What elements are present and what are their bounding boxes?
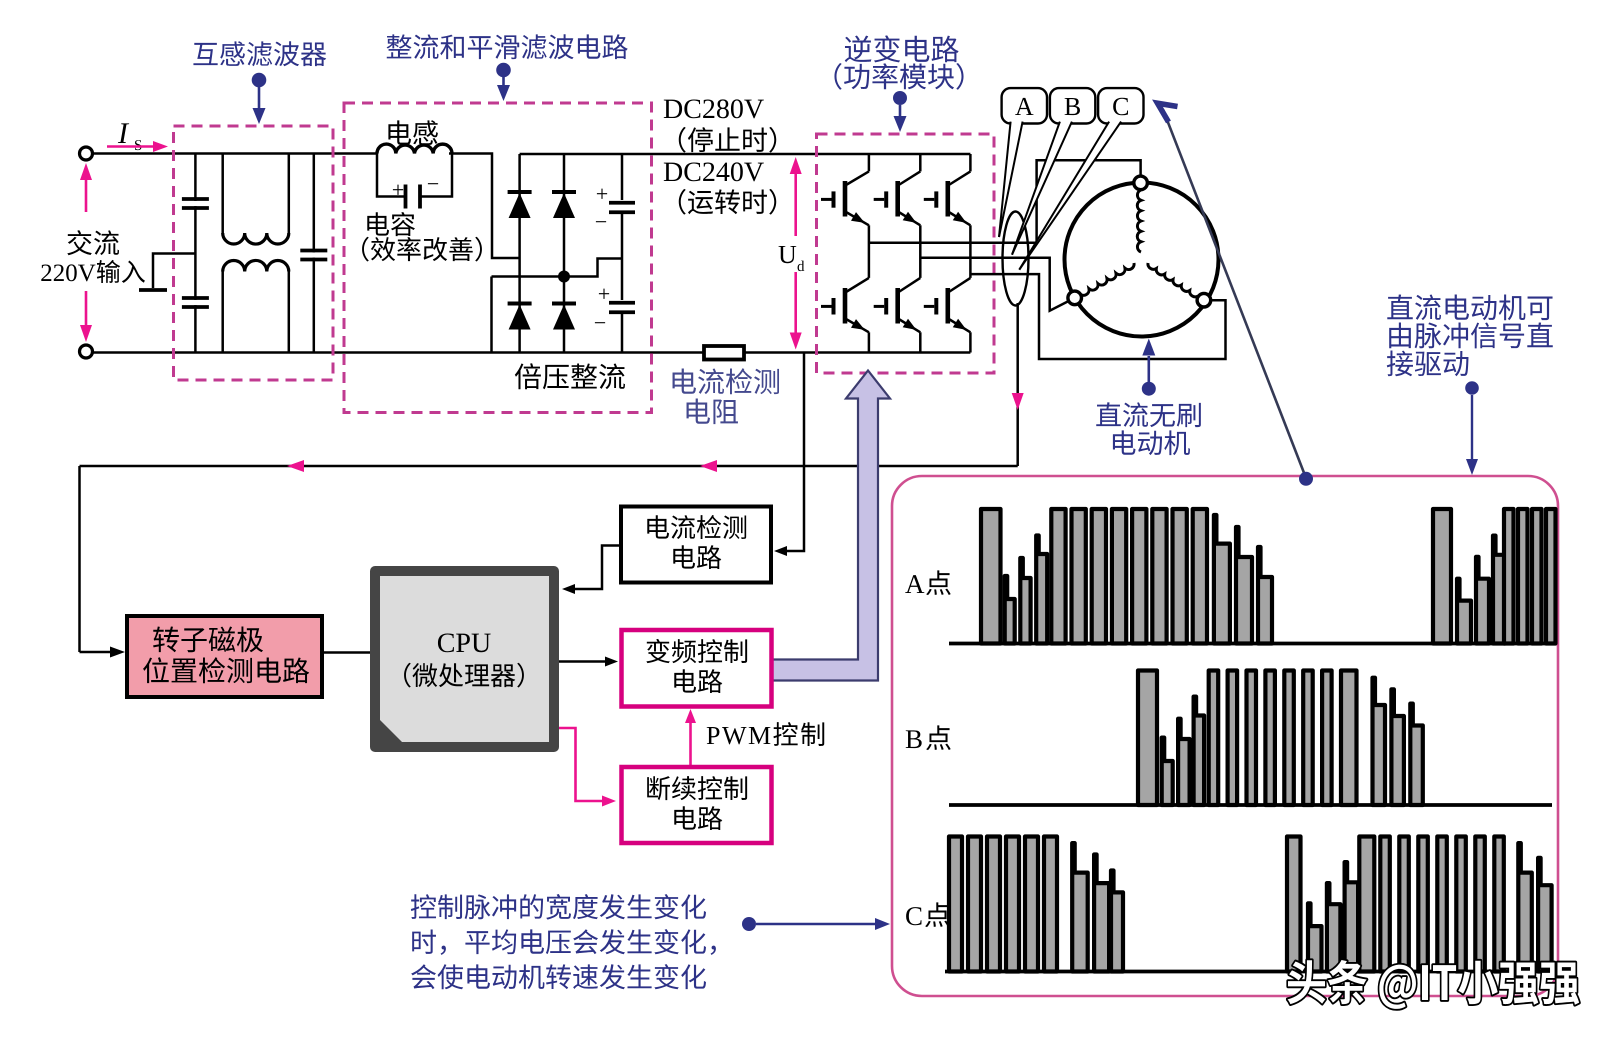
wire neutral drop to bottom <box>490 277 493 353</box>
node AC input bottom terminal <box>80 345 93 358</box>
arrow rectifier label pointer <box>502 77 505 86</box>
label control-pulse note <box>411 894 706 920</box>
arrow right note to waveform box <box>1471 395 1473 460</box>
arrow AC voltage up (magenta) <box>85 175 88 212</box>
pointer dot rectifier label <box>496 63 511 78</box>
callout wedge B <box>1012 122 1073 255</box>
wire Q2 collector drop <box>919 154 922 171</box>
arrow AC voltage down (magenta) <box>85 291 88 330</box>
capacitor C2 storage bottom <box>609 300 635 311</box>
label power module <box>834 63 963 90</box>
wire phase C output <box>970 274 1225 359</box>
wire rotor box to CPU <box>322 651 370 654</box>
label DC brushless motor <box>1096 402 1201 427</box>
label DC280V <box>664 99 764 118</box>
label plus bypass cap <box>393 185 403 195</box>
wire left diode column <box>518 154 521 353</box>
inductor choke lower winding <box>223 260 289 271</box>
diode D3 lower-left <box>508 302 532 306</box>
callout wedge C <box>1019 122 1122 270</box>
diode D2 upper-right <box>552 190 576 194</box>
box mutual-inductance filter (dashed) <box>174 126 334 380</box>
label (at stop) <box>679 127 776 153</box>
label minus bypass cap <box>428 183 438 184</box>
wire feedback horizontal <box>80 465 1018 468</box>
waveform B pulses <box>1138 671 1157 806</box>
transistor Q3 (upper IGBT phase C) <box>945 181 950 217</box>
node B label box <box>1050 88 1095 123</box>
wire filter left column <box>194 154 197 352</box>
box inverter power module (dashed) <box>817 134 995 373</box>
arrow inverter label pointer <box>899 105 902 117</box>
node AC input top terminal <box>80 147 93 160</box>
transistor Q5 (lower IGBT phase B) <box>895 288 900 324</box>
capacitor CX1 top <box>182 201 209 206</box>
box variable-frequency control <box>622 630 772 707</box>
wire sense to current-detect box <box>780 353 804 552</box>
label point B <box>906 730 922 748</box>
arrow feedback left 2 (magenta) <box>700 460 717 472</box>
diode D4 lower-right <box>552 302 576 306</box>
wire phase B midpoint vertical <box>919 225 922 278</box>
label (at run) <box>679 189 776 215</box>
arrow CPU to vf-control <box>559 660 611 663</box>
waveform A pulses <box>981 509 1001 644</box>
box current detection circuit <box>621 507 771 583</box>
box rectifier and smoothing filter (dashed) <box>344 103 652 413</box>
node A label box <box>1002 88 1047 123</box>
label PWM control <box>707 722 824 746</box>
wire filter right column <box>313 154 316 352</box>
node motor terminal top <box>1134 176 1148 190</box>
box intermittent control <box>622 767 772 843</box>
wire Q6 emitter to bottom bus <box>969 332 972 352</box>
junction dot bridge mid <box>558 271 570 283</box>
wire top main from terminal to inductor <box>93 152 378 155</box>
resistor R-sense <box>704 346 744 360</box>
box rotor magnetic pole position detector <box>127 616 322 697</box>
label Is current <box>118 123 129 143</box>
arrow feedback down (magenta) <box>1012 393 1024 410</box>
winding bottom-right <box>1148 263 1198 297</box>
arrow waveform-to-ABC long pointer <box>1163 110 1306 479</box>
transistor Q6 (lower IGBT phase C) <box>945 288 950 324</box>
label current detection resistor <box>673 368 779 394</box>
wire bridge mid rail <box>492 259 623 277</box>
arrow PWM drive (lavender) <box>772 371 891 681</box>
pointer dot motor label <box>1142 382 1156 396</box>
pointer dot filter label <box>252 73 267 88</box>
wire phase B output <box>920 258 1068 311</box>
watermark toutiao <box>1288 960 1580 1009</box>
capacitor CX2 bottom <box>182 300 209 305</box>
label voltage-doubler rectifier <box>515 363 625 389</box>
wire into rotor detector <box>80 651 111 654</box>
capacitor CX3 <box>300 252 327 257</box>
arrow filter label pointer <box>258 87 261 108</box>
label plus C1 <box>597 189 607 199</box>
winding top <box>1137 190 1141 252</box>
arrow note to waveform box <box>756 923 878 926</box>
label point C <box>906 907 921 925</box>
waveform B baseline <box>949 803 1552 807</box>
transistor Q2 (upper IGBT phase B) <box>895 181 900 217</box>
wire Q1 collector drop <box>868 154 871 171</box>
arrow motor label pointer <box>1148 356 1151 382</box>
wire capacitor column <box>621 154 624 353</box>
ground bar <box>139 288 167 292</box>
arrow intermittent to vf (magenta) <box>689 717 692 765</box>
box pulse waveforms (rounded) <box>892 476 1558 996</box>
wire phase C midpoint vertical <box>969 225 972 278</box>
label minus C2 <box>595 322 605 323</box>
pointer dot note <box>742 917 756 931</box>
callout wedge A <box>999 122 1023 237</box>
inductor choke upper winding <box>223 233 289 244</box>
wire bottom main bus <box>93 351 971 354</box>
pointer dot right note <box>1465 381 1479 395</box>
label inverter circuit <box>845 35 959 62</box>
label Ud <box>779 246 797 263</box>
inductor L1 <box>377 144 452 153</box>
node motor terminal right <box>1197 293 1211 307</box>
label plus C2 <box>599 289 609 299</box>
pointer dot inverter label <box>893 91 907 105</box>
wire Q4 emitter to bottom bus <box>868 332 871 352</box>
label AC 220V input <box>67 230 119 255</box>
diode D1 upper-left <box>508 190 532 194</box>
wire feedback left vertical <box>78 466 81 652</box>
node C label box <box>1098 88 1143 123</box>
node motor terminal left <box>1068 291 1082 305</box>
label DC motor pulse-driven note <box>1387 294 1552 320</box>
winding bottom-left <box>1080 263 1134 295</box>
waveform A baseline <box>949 642 1552 646</box>
wire phase A midpoint vertical <box>868 225 871 278</box>
transistor Q1 (upper IGBT phase A) <box>843 181 848 217</box>
motor BLDC stator circle <box>1065 183 1219 337</box>
wire current-detect to CPU <box>568 546 621 590</box>
capacitor C-bypass plates <box>404 185 408 209</box>
arrow Ud span (magenta double) <box>794 168 797 236</box>
wire Q5 emitter to bottom bus <box>919 332 922 352</box>
wire CPU to intermittent (magenta) <box>559 728 608 801</box>
waveform C pulses <box>949 837 962 972</box>
wire right diode column <box>563 154 566 353</box>
wire top rectifier rail <box>520 153 971 156</box>
label mutual-inductance filter <box>193 41 326 66</box>
waveform C baseline <box>945 970 1552 974</box>
label point A <box>905 575 924 593</box>
chip U1 CPU <box>370 566 559 752</box>
arrow Is direction (magenta) <box>107 145 155 148</box>
ellipse cable bundle <box>1003 212 1029 306</box>
arrow feedback left 1 (magenta) <box>287 460 304 472</box>
label inductor L1 <box>388 120 437 145</box>
label capacitor efficiency <box>367 212 415 236</box>
wire from inductor to bridge (down-step) <box>449 154 520 259</box>
capacitor C1 storage top <box>609 200 635 211</box>
wire current sample from bundle <box>1016 303 1019 466</box>
wire bypass capacitor loop <box>377 154 404 197</box>
pointer dot on waveform box <box>1299 472 1313 486</box>
label rectifier and smoothing circuit <box>387 34 628 59</box>
label DC240V <box>664 162 764 181</box>
wire Q3 collector drop <box>969 154 972 171</box>
wire ground tap <box>153 254 195 289</box>
label minus C1 <box>596 221 606 222</box>
wire phase A output <box>869 160 1141 243</box>
transistor Q4 (lower IGBT phase A) <box>843 288 848 324</box>
